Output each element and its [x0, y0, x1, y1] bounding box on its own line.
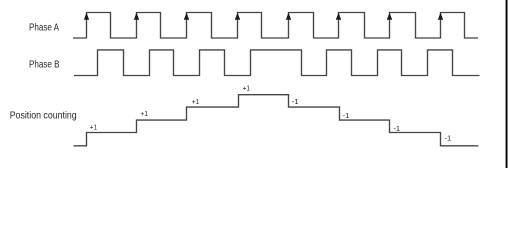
svg-text:+1: +1: [192, 97, 199, 106]
arrow A rising edge 7: [387, 13, 392, 20]
svg-text:-1: -1: [292, 97, 299, 106]
arrow A rising edge 2: [134, 13, 139, 20]
svg-text:Position counting: Position counting: [10, 110, 77, 121]
arrow A rising edge 1: [84, 13, 89, 20]
wire waveform Phase A: [73, 13, 478, 39]
svg-text:+1: +1: [90, 123, 97, 132]
svg-text:+1: +1: [141, 109, 148, 118]
wire waveform Phase B: [74, 50, 480, 76]
svg-text:-1: -1: [445, 133, 452, 142]
arrow A rising edge 3: [184, 13, 189, 20]
arrow A rising edge 5: [286, 13, 291, 20]
arrow A rising edge 4: [235, 13, 240, 20]
svg-text:-1: -1: [343, 111, 350, 120]
svg-text:Phase A: Phase A: [29, 23, 59, 34]
svg-text:Phase B: Phase B: [29, 60, 60, 71]
svg-text:-1: -1: [393, 124, 400, 133]
svg-text:+1: +1: [243, 84, 250, 93]
right border line: [506, 0, 508, 168]
arrow A rising edge 8: [438, 13, 443, 20]
wire staircase Position counting: [74, 95, 479, 146]
arrow A rising edge 6: [336, 13, 341, 20]
